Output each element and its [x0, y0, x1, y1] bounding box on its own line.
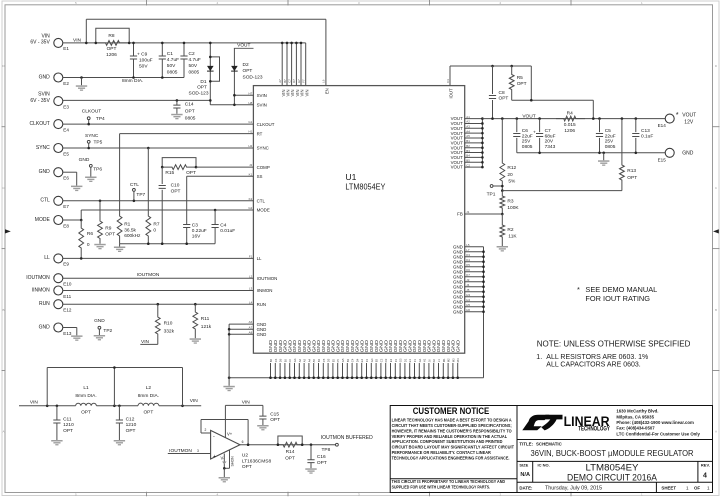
svg-text:20V: 20V: [545, 139, 554, 145]
terminal E15 GND: [658, 148, 694, 162]
svg-text:OPT: OPT: [105, 231, 115, 237]
svg-text:TECHNOLOGY: TECHNOLOGY: [578, 427, 610, 433]
svg-text:LL: LL: [44, 255, 50, 261]
svg-text:0805: 0805: [167, 69, 178, 75]
wire GND pins A6 A7 A8 to left bus: [228, 324, 254, 378]
svg-text:MODE: MODE: [35, 217, 51, 223]
svg-text:E6: E6: [283, 358, 287, 362]
svg-text:0.015: 0.015: [564, 122, 576, 128]
svg-text:VIN: VIN: [73, 37, 82, 43]
svg-text:SOD-123: SOD-123: [243, 74, 263, 80]
svg-text:D1: D1: [200, 79, 206, 85]
capacitor C4: [212, 209, 236, 244]
svg-text:C4: C4: [351, 358, 355, 362]
capacitor C12: [116, 406, 137, 440]
svg-text:A7: A7: [278, 79, 282, 83]
svg-text:MODE: MODE: [257, 208, 270, 213]
svg-text:SUPPLIED FOR USE WITH LINEAR T: SUPPLIED FOR USE WITH LINEAR TECHNOLOGY …: [392, 484, 491, 489]
U1 pin A2 VOUT: [451, 120, 471, 126]
svg-text:E7: E7: [297, 79, 301, 83]
svg-text:B7: B7: [283, 79, 287, 83]
svg-text:VOUT: VOUT: [682, 112, 696, 118]
test point TP1: [487, 185, 504, 198]
svg-text:VIN: VIN: [304, 90, 309, 97]
label 8mm DIA for C9: [122, 78, 143, 84]
svg-text:C13: C13: [641, 128, 650, 134]
op-amp U2 LT1636CMS8: [211, 430, 272, 470]
resistor R9: [98, 200, 116, 244]
net label VIN left: [30, 399, 39, 405]
svg-text:SEE DEMO MANUAL: SEE DEMO MANUAL: [585, 285, 657, 294]
bottom GND pin wires: [271, 363, 458, 378]
svg-text:L1: L1: [83, 385, 89, 391]
svg-text:GND: GND: [39, 324, 51, 330]
svg-text:E7: E7: [63, 204, 69, 209]
terminal E13 GND: [39, 323, 72, 336]
svg-text:121k: 121k: [201, 324, 212, 330]
svg-text:4.7uF: 4.7uF: [189, 57, 201, 63]
terminal E7 CTL: [40, 196, 69, 209]
svg-text:+ C9: + C9: [137, 52, 148, 58]
svg-text:TP1: TP1: [487, 192, 496, 198]
svg-text:0.1uF: 0.1uF: [641, 133, 653, 139]
wire bypass rail over L1 L2: [47, 366, 182, 406]
svg-text:R2: R2: [507, 227, 513, 233]
U1 pin H7 SVIN: [248, 91, 266, 98]
capacitor C10: [159, 167, 181, 244]
svg-text:SVIN: SVIN: [257, 93, 267, 98]
wire LL from E9 to U1: [63, 257, 254, 260]
svg-text:R10: R10: [164, 320, 173, 326]
resistor R3: [500, 191, 520, 214]
svg-text:SOD-123: SOD-123: [189, 90, 209, 96]
svg-text:THIS CIRCUIT IS PROPRIETARY TO: THIS CIRCUIT IS PROPRIETARY TO LINEAR TE…: [392, 479, 506, 484]
inductor L2: [138, 385, 159, 415]
svg-text:SCHEMATIC: SCHEMATIC: [536, 442, 563, 447]
svg-text:100K: 100K: [507, 205, 519, 211]
wire GND from E13: [63, 328, 77, 336]
terminal E9 LL: [44, 254, 69, 267]
svg-text:7343: 7343: [545, 144, 556, 150]
svg-text:VIN: VIN: [30, 399, 39, 405]
svg-text:IOUTMON: IOUTMON: [26, 275, 50, 281]
svg-text:SVIN: SVIN: [257, 103, 267, 108]
svg-text:6V - 35V: 6V - 35V: [30, 40, 50, 46]
U1 pin J3 GND: [453, 278, 470, 284]
wire U2 pin 3 input: [168, 449, 211, 454]
svg-text:R12: R12: [507, 165, 516, 171]
svg-text:DEMO CIRCUIT 2016A: DEMO CIRCUIT 2016A: [567, 473, 658, 484]
svg-text:E14: E14: [658, 123, 667, 128]
svg-text:C6: C6: [274, 358, 278, 362]
svg-text:OPT: OPT: [107, 46, 117, 52]
wire IOUTMON from E10 to U1: [63, 277, 254, 279]
net label IOUTMON: [137, 272, 160, 278]
svg-text:OPT: OPT: [270, 417, 280, 423]
svg-text:22uF: 22uF: [605, 133, 616, 139]
wire U2 output: [240, 440, 336, 446]
capacitor C11: [53, 406, 74, 440]
resistor R1: [117, 134, 253, 244]
svg-text:4.7uF: 4.7uF: [167, 57, 179, 63]
svg-text:C10: C10: [171, 183, 180, 189]
wire SVIN from E3 to U1: [63, 99, 254, 106]
capacitor C13: [632, 119, 653, 153]
wires VIN pin stubs into U1 top: [281, 42, 306, 86]
svg-text:B3: B3: [375, 358, 379, 362]
svg-text:RUN: RUN: [257, 302, 267, 307]
svg-text:GND: GND: [39, 169, 51, 175]
svg-text:SIZE: SIZE: [519, 463, 528, 468]
title row text: [519, 442, 693, 458]
svg-text:600kHz: 600kHz: [124, 233, 141, 239]
U1 pin K3 GND: [453, 253, 470, 259]
svg-text:F5: F5: [336, 359, 340, 363]
svg-text:Phone: (408)432-1900: Phone: (408)432-1900: [616, 420, 661, 425]
ground symbol at E13: [71, 335, 82, 340]
capacitor C14: [173, 99, 196, 121]
U1 pin J2 COMP: [249, 163, 270, 170]
svg-text:8mm DIA.: 8mm DIA.: [75, 393, 96, 399]
capacitor C9: [130, 42, 153, 78]
title block outline: [517, 406, 713, 493]
svg-text:F4: F4: [365, 359, 369, 363]
svg-text:OPT: OPT: [185, 108, 195, 114]
terminal E6 GND: [39, 168, 70, 181]
net label VIN at R10: [140, 339, 158, 345]
svg-text:E15: E15: [658, 157, 667, 162]
svg-text:E5: E5: [331, 358, 335, 362]
wire VOUT pins to bus: [465, 117, 484, 168]
svg-text:APPLICATION. COMPONENT SUBSTI: APPLICATION. COMPONENT SUBSTITUTION AND …: [392, 439, 503, 444]
wire U2 V- and SHDN to ground: [222, 450, 234, 470]
svg-text:NOTE: UNLESS OTHERWISE SPECIFI: NOTE: UNLESS OTHERWISE SPECIFIED: [537, 339, 691, 348]
svg-text:D6: D6: [279, 358, 283, 362]
U1 pin A3 VOUT: [451, 125, 471, 131]
svg-text:M1: M1: [442, 358, 446, 362]
resistor R5: [509, 65, 526, 101]
svg-text:SVIN: SVIN: [38, 92, 50, 98]
net label IOUTMON BUFFERED: [321, 435, 373, 441]
inductor L1: [75, 385, 96, 415]
U1 pin H6 GND: [453, 308, 470, 314]
svg-text:EN: EN: [325, 88, 330, 94]
svg-text:RUN: RUN: [39, 301, 50, 307]
wire sense line to R4 output side: [512, 99, 594, 119]
svg-text:D4: D4: [355, 358, 359, 362]
Linear Technology address text: [616, 409, 700, 437]
svg-text:VOUT: VOUT: [522, 113, 535, 119]
svg-text:G5: G5: [341, 358, 345, 362]
ground symbol at TP6: [85, 177, 96, 183]
note SEE DEMO MANUAL: [577, 285, 657, 303]
svg-text:B6: B6: [269, 358, 273, 362]
svg-text:SYNC: SYNC: [257, 146, 269, 151]
svg-text:R11: R11: [201, 316, 210, 322]
U1 bottom GND pin numbers: [269, 358, 460, 362]
svg-text:0805: 0805: [605, 144, 616, 150]
U1 pin J4 GND: [453, 283, 470, 289]
svg-text:G6: G6: [293, 358, 297, 362]
svg-text:*: *: [577, 285, 580, 294]
svg-text:IINMON: IINMON: [257, 288, 273, 293]
svg-text:E4: E4: [63, 127, 69, 132]
wire output GND rail: [517, 152, 666, 155]
svg-text:VIN: VIN: [242, 399, 251, 405]
customer notice footer text: [392, 479, 506, 489]
svg-text:OPT: OPT: [126, 428, 136, 434]
U1 pin C7 VIN: [287, 79, 295, 97]
svg-text:50V: 50V: [167, 63, 176, 69]
resistor R15: [161, 158, 197, 176]
svg-text:D5: D5: [327, 358, 331, 362]
U1 pin H4 GND: [453, 298, 470, 304]
U1 pin H5 GND: [453, 303, 470, 309]
capacitor C1: [159, 42, 179, 78]
svg-text:OPT: OPT: [171, 189, 181, 195]
ground symbol at TP2: [94, 335, 105, 340]
svg-text:LL: LL: [257, 256, 262, 261]
svg-text:M2: M2: [447, 358, 451, 362]
border center arrows: [5, 229, 719, 233]
svg-text:8mm DIA.: 8mm DIA.: [122, 78, 143, 84]
svg-text:LTC Confidential-For Customer: LTC Confidential-For Customer Use Only: [616, 431, 700, 436]
wire bottom VIN rail: [19, 405, 201, 408]
ground symbol at output GND rail: [598, 153, 609, 166]
svg-text:R13: R13: [627, 168, 636, 174]
U1 pin B4 VOUT: [451, 154, 471, 160]
svg-text:Thursday, July 09, 2015: Thursday, July 09, 2015: [545, 486, 602, 492]
terminal E1 VIN: [30, 34, 69, 52]
ground symbol at C15: [257, 425, 268, 430]
ground symbol at E6: [71, 186, 82, 192]
svg-text:VOUT: VOUT: [237, 42, 250, 48]
svg-text:ALL RESISTORS ARE 0603. 1%: ALL RESISTORS ARE 0603. 1%: [546, 354, 648, 361]
ground symbol at R2: [497, 246, 508, 252]
svg-text:OPT: OPT: [81, 409, 91, 415]
U1 pin H1 RT: [248, 130, 262, 137]
U1 pin C1 IOUT: [446, 79, 454, 99]
svg-text:6V - 35V: 6V - 35V: [30, 98, 50, 104]
U1 pin K7 GND: [453, 273, 470, 279]
svg-text:R4: R4: [567, 110, 573, 116]
capacitor C7: [533, 119, 556, 153]
wire U2 V+ to VIN: [225, 405, 263, 437]
svg-text:8mm DIA.: 8mm DIA.: [138, 393, 159, 399]
resistor R8: [95, 28, 131, 58]
svg-text:A: A: [715, 430, 717, 434]
U1 pin L4 RUN: [249, 300, 266, 307]
U1 pin G2 MODE: [248, 206, 270, 213]
svg-text:12V: 12V: [684, 120, 694, 126]
svg-text:0805: 0805: [185, 116, 196, 122]
svg-text:FB: FB: [457, 212, 463, 217]
svg-text:E5: E5: [63, 151, 69, 156]
svg-text:R1: R1: [124, 222, 130, 228]
svg-text:F1: F1: [413, 359, 417, 363]
svg-text:22uF: 22uF: [522, 133, 533, 139]
svg-text:VIN: VIN: [190, 398, 199, 404]
U1 pin L5 GND: [453, 243, 470, 249]
U1 pin K6 GND: [453, 268, 470, 274]
wire GND from E6: [63, 172, 77, 185]
test point TP5: [85, 133, 103, 149]
svg-text:0: 0: [153, 228, 156, 234]
svg-text:Fax: (408)434-0507: Fax: (408)434-0507: [616, 426, 655, 431]
svg-text:C7: C7: [545, 128, 551, 134]
svg-text:J2: J2: [249, 163, 252, 167]
svg-text:0.01uF: 0.01uF: [220, 228, 235, 234]
svg-text:A7: A7: [249, 325, 253, 329]
ground symbol at ground rail: [114, 244, 125, 252]
svg-text:IINMON: IINMON: [32, 287, 50, 293]
resistor R13: [620, 119, 638, 191]
svg-text:E10: E10: [63, 282, 72, 287]
U1 pin A5 VOUT: [451, 134, 471, 140]
svg-text:K6: K6: [432, 358, 436, 362]
wire RUN from E12 to U1: [63, 303, 254, 305]
U1 pin F1 LL: [249, 255, 262, 262]
svg-text:U2: U2: [242, 453, 248, 459]
svg-text:D7: D7: [292, 79, 296, 83]
svg-text:G1: G1: [418, 358, 422, 362]
U1 pin A7 GND: [249, 325, 267, 332]
wire GND from E2: [63, 76, 184, 79]
U1 pin F7 VIN: [302, 79, 310, 96]
svg-text:GND: GND: [257, 332, 267, 337]
svg-text:CIRCUIT THAT MEETS CUSTOMER-SU: CIRCUIT THAT MEETS CUSTOMER-SUPPLIED SPE…: [392, 423, 513, 428]
U1 pin L2 IOUTMON: [249, 274, 277, 281]
net label VOUT: [522, 113, 535, 119]
svg-text:J6: J6: [427, 359, 431, 362]
svg-text:16V: 16V: [192, 234, 201, 240]
svg-text:E13: E13: [63, 331, 72, 336]
wire VOUT rail: [482, 117, 665, 120]
svg-text:OPT: OPT: [285, 456, 295, 462]
svg-text:C14: C14: [185, 101, 194, 107]
svg-text:TP6: TP6: [93, 166, 102, 172]
svg-text:0805: 0805: [189, 69, 200, 75]
svg-text:GND: GND: [682, 151, 694, 157]
svg-text:R7: R7: [153, 222, 159, 228]
terminal E8 MODE: [35, 216, 70, 229]
svg-text:M4: M4: [456, 358, 460, 362]
svg-text:E3: E3: [389, 358, 393, 362]
svg-text:1: 1: [707, 485, 710, 490]
svg-text:H1: H1: [248, 130, 252, 134]
net label VOUT at D2: [234, 42, 254, 48]
test point TP8: [322, 443, 339, 453]
terminal E11 IINMON: [32, 286, 72, 299]
net label VIN at U2: [242, 399, 251, 405]
U1 pin E7 VIN: [297, 79, 305, 97]
svg-text:E8: E8: [63, 223, 69, 228]
wire ground rail under R1 R7 C10 C3 C4: [120, 242, 216, 245]
svg-text:20: 20: [507, 172, 513, 178]
svg-text:1206: 1206: [106, 52, 117, 58]
svg-text:OPT: OPT: [186, 170, 196, 176]
svg-text:*: *: [676, 110, 679, 119]
terminal E12 RUN: [39, 300, 72, 313]
svg-text:Milpitas, CA 95035: Milpitas, CA 95035: [616, 414, 654, 419]
svg-text:SYNC: SYNC: [36, 145, 50, 151]
capacitor C15: [259, 405, 280, 425]
U1 pin C2 VOUT: [451, 163, 471, 169]
svg-text:IOUTMON BUFFERED: IOUTMON BUFFERED: [321, 435, 373, 441]
test point TP7: [130, 182, 146, 202]
svg-text:L2: L2: [249, 274, 253, 278]
svg-text:A5: A5: [312, 358, 316, 362]
svg-text:C1: C1: [446, 79, 450, 83]
svg-text:TP5: TP5: [94, 139, 103, 145]
svg-text:CTL: CTL: [40, 198, 50, 204]
net label VIN right: [190, 398, 199, 404]
svg-text:GND: GND: [453, 309, 463, 314]
resistor R14: [277, 436, 304, 462]
svg-text:V+: V+: [227, 432, 233, 437]
resistor R7: [146, 147, 160, 244]
svg-text:R9: R9: [105, 225, 111, 231]
U1 pin A6 GND: [249, 320, 267, 327]
svg-text:L2: L2: [146, 385, 152, 391]
svg-text:E6: E6: [63, 176, 69, 181]
svg-text:C15: C15: [270, 411, 279, 417]
svg-text:B: B: [2, 308, 4, 312]
U1 pin D7 VIN: [292, 79, 300, 97]
svg-text:L1: L1: [437, 359, 441, 363]
wire IINMON from E11 to U1: [63, 290, 254, 292]
svg-text:E3: E3: [63, 104, 69, 109]
svg-text:FOR IOUT RATING: FOR IOUT RATING: [585, 294, 650, 303]
svg-text:LTM8054EY: LTM8054EY: [345, 182, 385, 192]
wire sense node to R13: [501, 189, 622, 192]
svg-text:A4: A4: [307, 358, 311, 362]
customer notice heading: [413, 406, 490, 416]
svg-text:D1: D1: [403, 358, 407, 362]
svg-text:1630 McCarthy Blvd.: 1630 McCarthy Blvd.: [616, 409, 658, 414]
svg-text:TP7: TP7: [136, 192, 145, 198]
svg-text:A2: A2: [298, 358, 302, 362]
wire COMP to U1: [196, 166, 253, 168]
terminal E10 IOUTMON: [26, 274, 72, 287]
U1 pin B7 VIN: [283, 79, 291, 97]
ground symbol at R9: [94, 244, 105, 250]
resistor R4: [556, 110, 585, 134]
svg-text:SS: SS: [257, 174, 263, 179]
svg-text:B2: B2: [317, 358, 321, 362]
svg-text:M3: M3: [451, 358, 455, 362]
svg-text:GND: GND: [39, 74, 51, 80]
svg-text:C2: C2: [189, 51, 195, 57]
svg-text:E4: E4: [360, 358, 364, 362]
svg-text:CLKOUT: CLKOUT: [257, 122, 275, 127]
customer notice body text: [392, 418, 515, 461]
U1 pin K2 CTL: [249, 197, 266, 204]
capacitor C8: [489, 65, 509, 119]
terminal E2 GND: [39, 73, 70, 86]
svg-text:OPT: OPT: [143, 409, 153, 415]
svg-text:C3: C3: [379, 358, 383, 362]
U1 pin J1 FB: [457, 210, 470, 217]
wire U2 pin 2 feedback: [201, 420, 248, 445]
svg-text:A: A: [2, 430, 4, 434]
svg-text:+: +: [533, 131, 536, 136]
svg-text:2: 2: [205, 428, 207, 432]
svg-text:C7: C7: [287, 79, 291, 83]
U1 pin A4 VOUT: [451, 129, 471, 135]
svg-text:E9: E9: [63, 262, 69, 267]
U1 pin H2 SYNC: [248, 144, 268, 151]
